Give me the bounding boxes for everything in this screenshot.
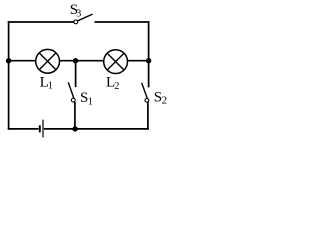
wire: left vertical side bbox=[8, 21, 10, 130]
wire: S1 branch lower vertical bbox=[74, 102, 76, 129]
wire: bottom right segment to battery bbox=[44, 128, 149, 130]
svg-text:2: 2 bbox=[114, 81, 119, 92]
svg-text:1: 1 bbox=[48, 80, 53, 91]
node: S1 bottom junction bbox=[72, 126, 77, 131]
battery cell: short plate bbox=[39, 125, 41, 132]
switch S3 blade bbox=[78, 14, 93, 21]
switch S3 contact circle bbox=[74, 20, 78, 24]
wire: bottom left segment from battery bbox=[8, 128, 39, 130]
svg-text:1: 1 bbox=[88, 96, 93, 107]
svg-text:3: 3 bbox=[76, 8, 81, 19]
switch S2 contact circle bbox=[145, 98, 149, 102]
wire: top right segment from S3 bbox=[95, 21, 150, 23]
wire: S1 branch upper vertical bbox=[75, 61, 77, 87]
lamp L2 bbox=[104, 50, 128, 74]
svg-text:2: 2 bbox=[162, 94, 168, 106]
node: right junction bbox=[146, 58, 151, 63]
node: S1 top junction bbox=[73, 58, 78, 63]
switch S1 contact circle bbox=[71, 98, 75, 102]
switch S2 blade bbox=[142, 83, 148, 99]
switch S1 blade bbox=[68, 82, 73, 98]
lamp L1 bbox=[36, 49, 60, 73]
wire: right vertical upper bbox=[148, 21, 150, 87]
wire: middle horizontal through lamps bbox=[8, 60, 149, 62]
wire: top left segment to S3 bbox=[8, 21, 74, 23]
wire: right vertical lower bbox=[147, 102, 149, 130]
battery cell: long plate bbox=[42, 120, 44, 138]
node: left junction bbox=[6, 58, 11, 63]
